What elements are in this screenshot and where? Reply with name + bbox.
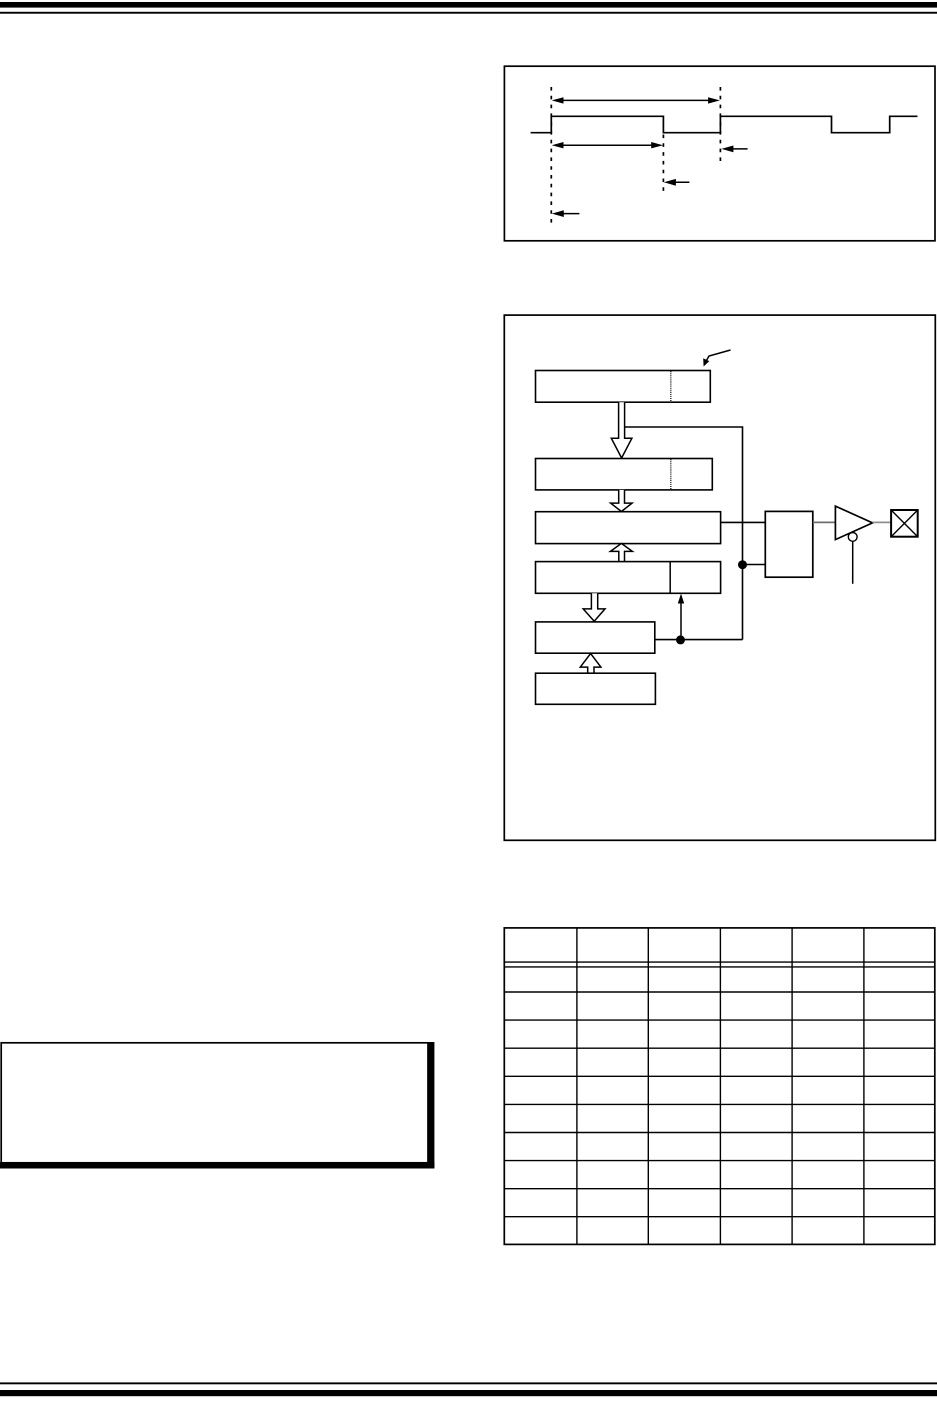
dotted divider in box 1 — [670, 371, 672, 401]
register box 5 — [536, 622, 655, 653]
hollow down arrow box1->box2 — [611, 402, 632, 458]
ref arrow at t3 — [721, 146, 747, 153]
top thick rule — [0, 2, 937, 8]
column line 2 — [647, 928, 649, 1245]
annotation arrow — [703, 350, 730, 367]
enable stub — [852, 541, 854, 584]
table outer border — [504, 928, 935, 1245]
wire box5 to feedback line — [655, 639, 743, 641]
top thin rule — [0, 12, 937, 14]
junction dot on feedback line — [738, 560, 747, 569]
I/O pad crossed box — [891, 510, 918, 537]
dashed marker line t3 — [719, 87, 721, 162]
bottom thin rule — [0, 1382, 937, 1384]
row line 5 — [504, 1103, 935, 1105]
dotted divider in box 2 — [670, 459, 672, 489]
ref arrow at t2 — [664, 179, 690, 186]
row line 9 — [504, 1216, 935, 1218]
dashed marker line t2 — [662, 135, 664, 195]
register box 3 — [536, 512, 721, 544]
column line 5 — [863, 928, 865, 1245]
column line 4 — [791, 928, 793, 1245]
enable bubble — [848, 533, 857, 542]
block diagram frame — [504, 315, 935, 840]
junction dot on box5 wire — [676, 635, 685, 644]
column line 3 — [719, 928, 721, 1245]
timing diagram frame — [504, 66, 935, 241]
row line 7 — [504, 1160, 935, 1162]
hollow up arrow box4->box3 — [610, 543, 632, 561]
note box (3D border) — [0, 1042, 434, 1169]
hollow up arrow box6->box5 — [580, 654, 601, 674]
register box 4 — [536, 562, 721, 594]
clock waveform — [531, 116, 918, 132]
feedback wire from shaft — [625, 427, 743, 640]
solid divider in box 4 — [669, 562, 671, 594]
gate box — [765, 511, 813, 577]
column line 1 — [576, 928, 578, 1245]
thin up arrow into box4 — [678, 594, 684, 640]
register box 1 — [536, 371, 711, 403]
ref arrow at t1 — [552, 210, 580, 217]
row line 8 — [504, 1188, 935, 1190]
register box 2 — [536, 459, 713, 490]
bottom thick rule — [0, 1390, 937, 1396]
row line 1 — [504, 991, 935, 993]
hollow down arrow box2->box3 — [611, 490, 633, 512]
wire gate to buffer — [813, 521, 836, 523]
row line 3 — [504, 1047, 935, 1049]
row line 4 — [504, 1075, 935, 1077]
table grid — [504, 928, 935, 1245]
dashed marker line t1 — [550, 87, 552, 225]
period double-headed arrow — [552, 97, 720, 103]
hollow down arrow box4->box5 — [583, 593, 605, 621]
header separator double line — [504, 961, 935, 963]
stub dot to gate — [743, 564, 766, 566]
output buffer triangle — [835, 506, 872, 539]
wire buffer to pad — [873, 521, 892, 523]
row line 2 — [504, 1019, 935, 1021]
register box 6 — [536, 673, 656, 704]
wire box3 to gate — [721, 521, 766, 523]
high-width double-headed arrow — [552, 142, 663, 148]
row line 6 — [504, 1132, 935, 1134]
